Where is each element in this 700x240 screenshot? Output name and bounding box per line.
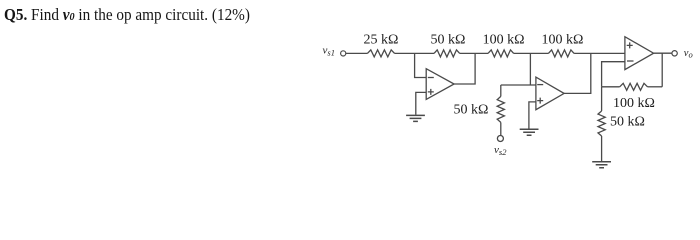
- resistor R50k vs2: [497, 96, 504, 122]
- ground G3: [592, 162, 611, 168]
- U3 plus mark: [627, 42, 633, 48]
- svg-text:100 kΩ: 100 kΩ: [483, 33, 525, 48]
- resistor R50k ground leg: [598, 111, 605, 136]
- wire U3 output to terminal: [654, 52, 672, 54]
- wire R50 to R100a: [460, 52, 488, 54]
- wire vs2 branch top: [500, 85, 502, 96]
- wire node N2 down to U2 minus wire: [529, 53, 531, 85]
- U3 minus mark: [627, 60, 634, 62]
- svg-text:vo: vo: [684, 48, 693, 60]
- svg-text:100 kΩ: 100 kΩ: [613, 96, 655, 111]
- op-amp U3: [625, 37, 654, 70]
- wire R100b to op-amp U3: [574, 52, 625, 54]
- wire U1 output up to node: [454, 53, 475, 84]
- U2 minus mark: [537, 84, 543, 86]
- svg-text:50 kΩ: 50 kΩ: [610, 114, 645, 129]
- svg-text:vs2: vs2: [494, 144, 507, 157]
- resistor R100k feedback3: [620, 83, 648, 90]
- resistor R50k feedback1: [434, 50, 460, 57]
- terminal vs1: [341, 51, 346, 56]
- wire U3 minus to feedback node: [602, 62, 625, 87]
- wire to vs2 terminal: [500, 122, 502, 135]
- wire U2 plus to ground: [529, 102, 536, 129]
- resistor R100k a: [488, 50, 514, 57]
- svg-text:25 kΩ: 25 kΩ: [364, 33, 399, 48]
- wire feedback node down to R50: [601, 87, 603, 111]
- resistor R100k b feedback2: [548, 50, 574, 57]
- U1 plus mark: [428, 89, 434, 95]
- terminal vo: [672, 51, 677, 56]
- wire U1 plus to ground: [416, 92, 426, 114]
- wire U2 output up to node: [564, 53, 591, 93]
- ground G1: [406, 115, 425, 121]
- wire R25 to R50: [395, 52, 434, 54]
- op-amp U2: [536, 77, 564, 110]
- svg-text:50 kΩ: 50 kΩ: [454, 103, 489, 118]
- U2 plus mark: [537, 98, 543, 104]
- terminal vs2: [497, 136, 503, 142]
- wire node N1 down to U1 minus: [415, 53, 427, 77]
- svg-text:100 kΩ: 100 kΩ: [541, 33, 583, 48]
- wire feedback left segment: [602, 86, 620, 88]
- wire U2 minus input: [501, 84, 536, 86]
- ground G2: [520, 129, 539, 135]
- op-amp U1: [426, 69, 454, 100]
- svg-text:50 kΩ: 50 kΩ: [431, 33, 466, 48]
- wire vs1 to R25: [346, 52, 368, 54]
- wire R50 to ground: [601, 136, 603, 161]
- resistor R25k: [367, 50, 394, 57]
- wire output tap down: [661, 53, 663, 87]
- U1 minus mark: [428, 77, 434, 79]
- title text: [4, 5, 250, 25]
- wire R100a to R100b: [514, 52, 549, 54]
- wire feedback right segment: [648, 86, 663, 88]
- svg-text:vs1: vs1: [323, 45, 335, 58]
